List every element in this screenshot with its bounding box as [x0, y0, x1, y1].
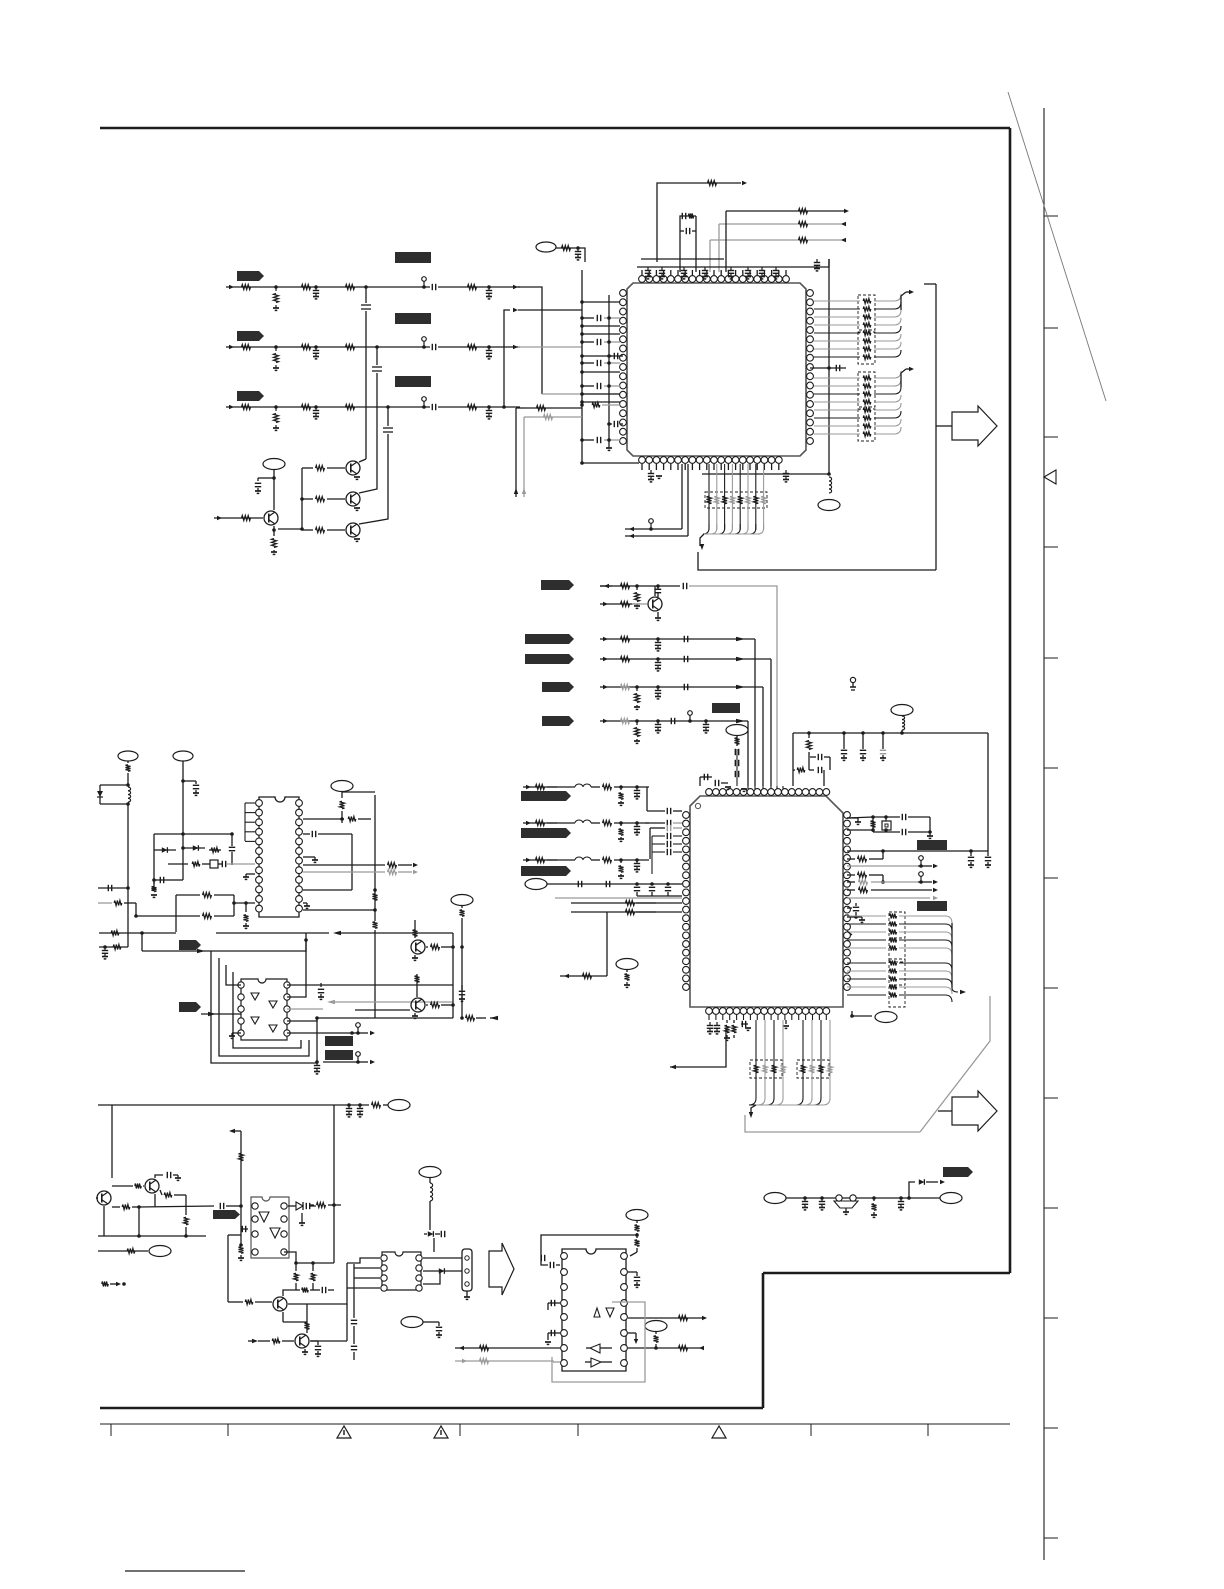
- node arrow: [844, 209, 849, 213]
- wire vcc lines1: [726, 210, 845, 212]
- resistor R52 gnd: [732, 1025, 737, 1033]
- label ARR1: [179, 940, 201, 950]
- node junction 317: [315, 1016, 319, 1020]
- capacitor chain: [736, 749, 738, 786]
- node junction: [907, 1196, 911, 1200]
- capacitor C43 series pair: [817, 767, 819, 773]
- wire q5 collector: [654, 586, 656, 596]
- resistor R83 gnd: [239, 1247, 244, 1253]
- wire Q3 collector: [359, 513, 388, 524]
- resistor R462: [536, 858, 545, 863]
- node RN3 down arrow: [700, 544, 704, 550]
- node arrow sig5: [603, 719, 608, 723]
- resistor R52: [468, 345, 477, 350]
- capacitor bypass to ground: [683, 267, 685, 271]
- wire vcc lines3: [710, 239, 845, 241]
- resistor R53: [468, 405, 477, 410]
- capacitor C78 gnd: [436, 1321, 439, 1323]
- capacitor bypass to ground: [730, 267, 732, 271]
- wire pins entry stubs: [747, 786, 749, 789]
- resistor RN1 element 3: [814, 316, 860, 318]
- capacitor C530 gnd: [635, 785, 639, 789]
- wire ruler tick: [1044, 1097, 1058, 1099]
- node junction 637: [635, 1233, 639, 1237]
- node IC6 left pins: [256, 800, 263, 807]
- resistor R22: [799, 209, 808, 214]
- wire 139 down: [138, 1207, 140, 1236]
- wire bottom bus: [702, 473, 829, 475]
- capacitor series on pin stub: [582, 385, 594, 387]
- resistor R84: [317, 1203, 326, 1208]
- capacitor C75 gnd: [310, 1340, 318, 1342]
- resistor R482 gnd: [619, 858, 623, 862]
- wire sig5: [600, 720, 748, 722]
- capacitor C13 to ground: [314, 405, 318, 409]
- wire loop1: [305, 940, 307, 952]
- node arrow out1: [921, 865, 932, 867]
- node junction row3 drop: [386, 405, 390, 409]
- wire grey loop: [287, 1008, 323, 1010]
- node junction 139: [137, 1205, 141, 1209]
- capacitor C70 gnd: [358, 1103, 362, 1107]
- wire ic9 to j1 b: [423, 1270, 462, 1272]
- wire to arrow K1: [935, 284, 937, 570]
- capacitor C22 series: [431, 344, 433, 350]
- wire drop a: [725, 211, 727, 272]
- wire sig4 drop: [762, 687, 764, 786]
- node left link arrow: [670, 1065, 676, 1069]
- wire q10 to 347: [288, 1263, 347, 1304]
- resistor network RN4b: [889, 940, 905, 962]
- resistor R59: [203, 893, 212, 898]
- label P7: [616, 959, 638, 970]
- wire row1 to IC1: [518, 287, 542, 394]
- resistor RN1 element 8: [814, 356, 860, 358]
- wire 375 to down: [374, 941, 376, 1018]
- wire bottom tick: [227, 1424, 229, 1436]
- diode D6: [439, 1268, 445, 1274]
- resistor RN2 element 1: [814, 377, 860, 379]
- ground near top pins: [741, 788, 747, 790]
- wire sw row1: [352, 1032, 358, 1034]
- resistor RN4 element 3: [847, 931, 886, 933]
- resistor network RN2a: [858, 372, 875, 407]
- wire ruler tick: [1044, 1427, 1058, 1429]
- node arrow sig1b: [603, 602, 608, 606]
- node junction row1 drop: [364, 285, 368, 289]
- node row3 up corner: [502, 405, 506, 409]
- wire ruler tick: [1044, 767, 1058, 769]
- node arrow arr1: [197, 949, 205, 953]
- resistor RN1 element 1: [814, 300, 860, 302]
- ground D4: [301, 1213, 303, 1223]
- resistor R32: [621, 602, 630, 607]
- label P11: [331, 781, 353, 792]
- wire IC6 left stubs: [245, 802, 255, 804]
- label SIG2: [525, 634, 574, 644]
- wire stub 917: [856, 916, 862, 918]
- op-amp IC5 body: [562, 1249, 626, 1371]
- resistor R25: [688, 214, 693, 219]
- wire ruler tick: [1044, 436, 1058, 438]
- resistor RN2 element 4: [814, 401, 860, 403]
- capacitor C24 series: [810, 367, 846, 369]
- resistor R480 gnd: [619, 785, 623, 789]
- label P19: [118, 751, 138, 761]
- wire sig1b: [600, 603, 640, 605]
- wire grey out3: [847, 897, 930, 899]
- wire row 903: [98, 902, 112, 904]
- resistor R37: [621, 719, 630, 724]
- wire RN5 gather2: [951, 987, 953, 989]
- wire q10 collector: [283, 1290, 296, 1296]
- ground 917: [861, 917, 863, 920]
- wire p6 to pin: [671, 883, 682, 885]
- capacitor C65: [303, 833, 310, 835]
- node arrow: [926, 1181, 938, 1183]
- resistor R23: [799, 222, 808, 227]
- wire row1 grey into pin: [542, 393, 621, 395]
- capacitor C34 series: [683, 684, 685, 690]
- resistor R55: [114, 901, 122, 906]
- ground IC7: [232, 1032, 241, 1034]
- op-amp IC8 gate1: [259, 1212, 269, 1222]
- wire ln0 to caps: [614, 786, 649, 788]
- wire arr1: [142, 950, 306, 952]
- resistor R90 vert: [305, 1323, 310, 1329]
- label OUT1: [943, 1167, 973, 1177]
- wire RN2 bus up: [901, 369, 906, 387]
- resistor network RN4a: [889, 912, 905, 938]
- wire 933 from right: [341, 932, 453, 934]
- resistor R21 to ground: [275, 287, 277, 291]
- capacitor C19: [685, 228, 687, 234]
- capacitor CL2: [645, 822, 665, 824]
- ground IC5 pin: [628, 1332, 636, 1334]
- node arrow in row2: [462, 1359, 467, 1363]
- capacitor C60 gnd: [899, 1196, 903, 1200]
- capacitor C73: [241, 1228, 248, 1230]
- resistor network RN3 elements: [708, 464, 710, 530]
- transistor Q5: [648, 597, 662, 611]
- resistor R33: [302, 405, 311, 410]
- resistor R11: [242, 285, 251, 290]
- label P12: [451, 895, 473, 906]
- resistor R66: [373, 894, 378, 900]
- resistor R40 drop: [807, 741, 812, 750]
- wire q8 collector up: [155, 1175, 163, 1178]
- resistor network RN3: [705, 492, 767, 508]
- op-amp IC7 gate3: [251, 1017, 259, 1024]
- transistor Q3: [346, 523, 360, 537]
- node arrow out3: [933, 896, 938, 900]
- node arrow: [841, 222, 846, 226]
- capacitor C531 gnd: [635, 821, 639, 825]
- label block D: [712, 703, 740, 713]
- ground left bus: [606, 447, 612, 449]
- node RN1 arrow: [909, 290, 914, 294]
- wire drop row3: [387, 407, 389, 513]
- node row1 output arrow: [513, 285, 518, 289]
- node arrow sig2: [603, 637, 608, 641]
- wire p11 down: [341, 792, 343, 798]
- resistor R75: [372, 1103, 381, 1108]
- resistor network RN5a: [889, 959, 905, 985]
- resistor R481 gnd: [619, 821, 623, 825]
- wire Q1 collector: [359, 459, 366, 462]
- switch S2: [422, 337, 427, 342]
- resistor R35: [621, 685, 630, 690]
- capacitor C26 to ground: [785, 470, 787, 474]
- wire left caps2: [548, 1332, 560, 1334]
- capacitor C22 to pin: [609, 355, 612, 357]
- wire sig3: [600, 658, 771, 660]
- wire stub: [809, 769, 814, 771]
- wire q8 emitter: [154, 1194, 156, 1207]
- resistor R81 arrow: [102, 1282, 108, 1287]
- capacitor C80: [549, 1262, 551, 1268]
- wire 347 down: [346, 1304, 348, 1341]
- capacitor C532 gnd: [635, 858, 639, 862]
- node arrow sel2: [629, 534, 634, 538]
- capacitor CL1: [646, 787, 648, 811]
- node arrow out: [358, 1032, 368, 1034]
- resistor R470: [603, 785, 612, 790]
- node junction rail: [137, 1234, 141, 1238]
- resistor R64: [303, 864, 385, 866]
- resistor R53 gnd: [872, 1196, 876, 1200]
- resistor network RN7: [797, 1060, 829, 1078]
- resistor R45: [847, 889, 855, 891]
- capacitor C42 series pair: [810, 756, 816, 758]
- wire d5 down: [433, 1238, 435, 1252]
- resistor networks RN6/RN7 elements: [755, 1020, 757, 1098]
- wire 176 down: [175, 895, 177, 932]
- resistor R69: [426, 946, 428, 948]
- resistor RN4 element 1: [847, 915, 886, 917]
- wire RN1 bus up: [901, 292, 906, 310]
- wire drop row2: [376, 347, 378, 481]
- node IC5 right pins: [621, 1253, 628, 1260]
- resistor R51: [468, 285, 477, 290]
- node junction 142: [140, 931, 144, 935]
- node IC2 bottom pins: [706, 1008, 713, 1015]
- inductor L5: [430, 1183, 433, 1188]
- node down arrow: [749, 1112, 753, 1118]
- capacitor C82: [550, 1300, 552, 1306]
- wire rc drop1: [679, 233, 681, 272]
- switch S8: [356, 1023, 361, 1028]
- node bottom warning triangle: [434, 1426, 448, 1438]
- switch S7: [919, 872, 924, 877]
- resistor R22 to ground: [275, 347, 277, 351]
- wire q7 base: [355, 1009, 410, 1011]
- ground Q2: [354, 507, 360, 509]
- label P17: [626, 1210, 648, 1221]
- capacitor CL4 column: [651, 836, 653, 874]
- resistor R96: [679, 1346, 688, 1351]
- wire bottom-left footer line: [125, 1570, 245, 1572]
- resistor R63: [303, 818, 344, 820]
- resistor R76: [135, 1184, 141, 1189]
- wire out rail 850: [847, 850, 988, 852]
- wire in row1: [455, 1347, 560, 1349]
- wire 342 to 375: [341, 819, 343, 823]
- wire grey out1: [847, 865, 918, 867]
- diode D7: [97, 791, 103, 797]
- wire ic9 stub2: [354, 1277, 380, 1279]
- node arrow left 933: [333, 931, 341, 935]
- wire r row1: [524, 407, 582, 409]
- node junction 462: [460, 945, 464, 949]
- wire ln2 to caps: [614, 859, 649, 861]
- wire Q2 collector: [359, 481, 377, 493]
- label P14: [149, 1246, 171, 1257]
- wire row 895b: [214, 894, 234, 896]
- node IC2 right pins: [844, 812, 851, 819]
- wire vert 241: [240, 1131, 242, 1245]
- resistor R28: [537, 406, 546, 411]
- wire rc left: [680, 216, 696, 233]
- resistor RN2 element 7: [814, 425, 860, 427]
- resistor network RN5b: [889, 987, 905, 1007]
- resistor network RN1b: [858, 332, 875, 364]
- node black arrow sig5: [736, 719, 745, 723]
- node junction x582: [580, 461, 584, 465]
- wire sig4: [600, 686, 763, 688]
- resistor RN5 element 4: [847, 986, 886, 988]
- wire RN gather bottom: [749, 1098, 756, 1105]
- node row3 arrow: [513, 308, 518, 312]
- wire grey link2: [553, 1361, 560, 1363]
- resistor R23 to ground: [275, 407, 277, 411]
- wire row 1251: [98, 1250, 148, 1252]
- capacitor C27 series: [656, 584, 660, 588]
- wire row2 to bus: [518, 346, 582, 348]
- wire RN3 gather: [703, 524, 709, 534]
- wire bottom tick: [459, 1424, 461, 1436]
- resistor R93: [480, 1346, 489, 1351]
- resistor R54 vert: [126, 765, 131, 771]
- wire sig1: [600, 585, 680, 587]
- label P5: [726, 725, 748, 736]
- resistor R50 gnd: [625, 974, 630, 980]
- label block F: [917, 840, 947, 850]
- label IN1: [237, 271, 264, 281]
- node junction base bus2: [300, 527, 304, 531]
- wire row 933: [99, 932, 176, 934]
- capacitor C41 gnd: [881, 731, 885, 735]
- wire left bus x609: [608, 295, 610, 448]
- node ln2 arrow: [523, 859, 557, 861]
- capacitor C23 to pin: [609, 423, 612, 425]
- transistor Q2: [346, 492, 360, 506]
- wire rail 834: [154, 833, 232, 835]
- resistor RN1 element 2: [814, 308, 860, 310]
- ground Q6: [414, 955, 416, 958]
- capacitor series on pin stub: [582, 362, 594, 364]
- wire r row2: [531, 416, 582, 418]
- wire sig to IC8: [139, 1206, 214, 1207]
- wire drop b: [718, 224, 720, 272]
- capacitor C71: [166, 1172, 168, 1178]
- node out1 tip: [702, 1316, 707, 1320]
- resistor R49: [583, 974, 592, 979]
- node IC6 right pins: [296, 800, 303, 807]
- resistor R27: [592, 403, 600, 408]
- wire bottom tick: [577, 1424, 579, 1436]
- wire x829 down: [828, 259, 830, 474]
- transistor Q9: [97, 1191, 111, 1205]
- wire right conn3: [287, 1018, 317, 1021]
- wire sel drop1: [681, 464, 683, 529]
- wire row3 up: [504, 310, 510, 407]
- node out2 tip: [699, 1346, 704, 1350]
- capacitor C16 series: [383, 426, 393, 434]
- wire q11 path: [283, 1321, 307, 1323]
- label block C: [395, 376, 431, 387]
- resistor R67: [373, 922, 378, 928]
- wire ic9 to j1 c: [423, 1271, 440, 1284]
- inductor L4: [547, 822, 575, 824]
- label P1: [263, 459, 285, 470]
- resistor RN1 element 5: [814, 332, 860, 334]
- capacitor C51 gnd: [847, 931, 852, 935]
- resonator X2: [836, 1195, 842, 1201]
- op-amp IC9 body: [382, 1252, 421, 1290]
- resistor RN4 element 2: [847, 923, 886, 925]
- wire row 888: [98, 887, 128, 889]
- label P16: [401, 1317, 423, 1328]
- wire top stub net: [657, 183, 741, 262]
- capacitor C57 gnd: [716, 1022, 718, 1026]
- inductor L6: [128, 787, 131, 791]
- resistor R58b gnd: [153, 880, 155, 884]
- label P20: [173, 751, 193, 761]
- node junctions 453: [451, 945, 455, 949]
- wire base grey: [632, 603, 647, 605]
- ground 315: [303, 856, 315, 858]
- wire 228 vert: [227, 1235, 229, 1302]
- wire out row2: [628, 1347, 703, 1349]
- capacitor C33 to ground: [487, 405, 491, 409]
- wire vdd rail: [793, 732, 988, 734]
- wire ln1 to caps: [614, 822, 649, 824]
- label P6: [525, 879, 547, 890]
- capacitor C14 series: [361, 303, 371, 311]
- wire IC2 bottom stubs: [708, 1015, 710, 1020]
- resistor network RN1a: [858, 295, 875, 330]
- wire row 933: [216, 932, 329, 934]
- node RN arrow: [952, 988, 958, 992]
- crystal X3: [210, 860, 218, 868]
- wire vert 375: [374, 795, 376, 921]
- wire pin stub: [582, 371, 620, 373]
- wire down from 912: [606, 912, 608, 921]
- capacitor C52 pair: [847, 907, 852, 909]
- wire right vcc riser: [987, 733, 989, 851]
- resistor RN5 element 2: [847, 970, 886, 972]
- wire loop left: [541, 1235, 637, 1265]
- node IC1 bottom pins: [639, 457, 646, 464]
- node junction L1: [827, 472, 831, 476]
- capacitor C32 series: [683, 656, 685, 662]
- node junction 183: [181, 779, 185, 783]
- resistor RN1 element 6: [814, 340, 860, 342]
- wire out row1: [628, 1317, 703, 1319]
- inductor L5: [547, 859, 575, 861]
- label P18: [645, 1321, 667, 1332]
